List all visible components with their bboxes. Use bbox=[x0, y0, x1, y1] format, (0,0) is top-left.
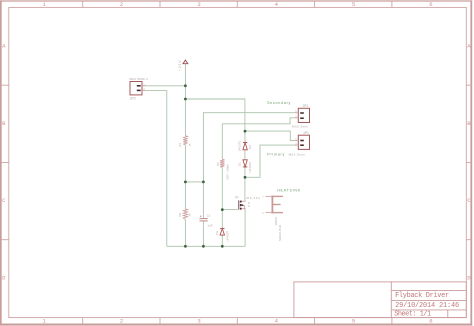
wire JP2 pin1 to +24V rail bbox=[146, 85, 186, 87]
wire primary pin2 to drain bbox=[245, 145, 295, 177]
connector JP1 bbox=[289, 131, 310, 156]
outer frame border top bbox=[0, 0, 472, 2]
svg-text:2: 2 bbox=[120, 317, 123, 324]
svg-text:Secondary: Secondary bbox=[267, 101, 291, 105]
svg-text:M02.5mm: M02.5mm bbox=[289, 152, 306, 156]
svg-text:JP1: JP1 bbox=[303, 131, 309, 135]
wire diode chain D2-D1 gap bbox=[244, 150, 246, 160]
svg-text:SK104-PAD: SK104-PAD bbox=[278, 224, 282, 241]
svg-text:1: 1 bbox=[42, 317, 46, 324]
wire ground bus bottom bbox=[167, 245, 245, 247]
svg-text:R2: R2 bbox=[178, 212, 182, 216]
svg-text:GND2: GND2 bbox=[274, 217, 278, 226]
svg-text:C: C bbox=[2, 197, 6, 204]
wire gate horizontal bbox=[222, 209, 238, 211]
wire below C1 to bus bbox=[202, 222, 204, 247]
svg-text:29/10/2014 21:46: 29/10/2014 21:46 bbox=[395, 302, 459, 310]
svg-text:1k: 1k bbox=[187, 213, 191, 217]
junction bus at D3 bbox=[221, 245, 224, 248]
connector JP3 bbox=[292, 104, 310, 129]
wire MOSFET source to ground bus bbox=[244, 209, 246, 246]
supply +24V symbol bbox=[178, 59, 188, 71]
wire drain line below D1 to MOSFET bbox=[244, 168, 246, 201]
svg-text:A: A bbox=[2, 43, 6, 50]
capacitor C1 bbox=[200, 214, 213, 228]
svg-text:6: 6 bbox=[429, 1, 432, 8]
resistor R2 bbox=[178, 209, 191, 220]
svg-text:Flyback Driver: Flyback Driver bbox=[395, 292, 449, 300]
wire secondary pin2 to R3 bbox=[222, 118, 294, 160]
wire top horizontal +24V to diode chain bbox=[185, 99, 245, 142]
bottom column tick marks bbox=[83, 318, 392, 324]
bottom column labels 1-6 bbox=[42, 317, 432, 324]
wire below R3 to gate node bbox=[221, 167, 223, 228]
junction bus at C1 bbox=[202, 245, 205, 248]
resistor R3 bbox=[216, 159, 230, 180]
svg-text:C1: C1 bbox=[207, 214, 211, 218]
svg-text:1N5375: 1N5375 bbox=[238, 141, 242, 152]
junction at gate node bbox=[221, 208, 224, 211]
wire JP2 pin2 right segment bbox=[146, 89, 167, 91]
svg-text:Q1: Q1 bbox=[235, 195, 239, 199]
svg-text:D3: D3 bbox=[215, 231, 219, 235]
svg-text:D1: D1 bbox=[238, 162, 242, 166]
wire +24V vertical rail bbox=[184, 64, 186, 136]
wire left vertical rail (GND from JP2 pin2) bbox=[166, 90, 168, 246]
junction at divider tap right / C1 bbox=[202, 181, 205, 184]
junction at clamp top / primary pin1 bbox=[244, 130, 247, 133]
svg-text:33R - 1Watt: 33R - 1Watt bbox=[226, 164, 230, 180]
right row tick marks bbox=[466, 85, 472, 240]
wire divider tap to C1 top bbox=[185, 181, 203, 183]
outer frame border left bbox=[0, 0, 2, 325]
outer frame border bottom bbox=[0, 324, 472, 326]
junction bus at R2 bbox=[184, 245, 187, 248]
resistor R1 bbox=[178, 136, 191, 147]
svg-text:2: 2 bbox=[262, 211, 264, 215]
connector JP2 bbox=[130, 77, 149, 100]
svg-text:D: D bbox=[2, 274, 6, 281]
title block box bbox=[294, 282, 466, 318]
svg-text:S: S bbox=[248, 204, 250, 208]
svg-text:+24V: +24V bbox=[178, 59, 182, 71]
svg-text:R1: R1 bbox=[178, 142, 182, 146]
left row labels A-D bbox=[2, 43, 6, 282]
heatsink symbol bbox=[272, 196, 283, 214]
top column tick marks bbox=[83, 1, 392, 7]
svg-text:Sheet: 1/1: Sheet: 1/1 bbox=[394, 311, 431, 319]
junction at top wire split bbox=[184, 98, 187, 101]
svg-text:Primary: Primary bbox=[267, 152, 285, 156]
svg-text:M02.5mm: M02.5mm bbox=[292, 124, 309, 128]
right row labels A-D bbox=[467, 43, 471, 282]
svg-text:JP2: JP2 bbox=[130, 96, 136, 100]
svg-text:IRF 634: IRF 634 bbox=[246, 196, 261, 200]
svg-text:D2: D2 bbox=[248, 145, 252, 149]
left row tick marks bbox=[1, 85, 9, 240]
svg-text:4: 4 bbox=[275, 1, 279, 8]
junction at divider tap left bbox=[184, 181, 187, 184]
svg-text:5: 5 bbox=[352, 1, 355, 8]
wire below D3 to bus bbox=[221, 235, 223, 246]
wire rail between R1 and R2 bbox=[184, 145, 186, 209]
svg-text:R3: R3 bbox=[216, 162, 220, 166]
outer frame border right bbox=[470, 0, 472, 325]
svg-text:UF4007: UF4007 bbox=[225, 230, 229, 241]
svg-text:D: D bbox=[248, 201, 250, 205]
svg-text:1k: 1k bbox=[187, 143, 191, 147]
diode D2 (zener 1N5375) bbox=[238, 141, 253, 152]
svg-text:3: 3 bbox=[197, 317, 200, 324]
svg-text:B: B bbox=[2, 120, 6, 127]
junction at +24V / JP2 pin1 bbox=[184, 84, 187, 87]
wire rail below R2 to bus bbox=[184, 220, 186, 247]
wire primary pin1 to clamp top bbox=[245, 131, 295, 140]
svg-text:5: 5 bbox=[352, 317, 355, 324]
svg-text:2: 2 bbox=[120, 1, 123, 8]
svg-text:1: 1 bbox=[262, 195, 264, 199]
svg-text:1: 1 bbox=[42, 1, 46, 8]
svg-text:1uF: 1uF bbox=[207, 224, 212, 228]
svg-text:HEATSINK: HEATSINK bbox=[277, 188, 301, 192]
svg-text:4: 4 bbox=[275, 317, 279, 324]
transistor Q1 MOSFET bbox=[235, 195, 260, 209]
svg-text:UF4007: UF4007 bbox=[248, 161, 252, 172]
svg-text:3: 3 bbox=[197, 1, 200, 8]
wire secondary pin1 horizontal bbox=[203, 113, 294, 218]
diode D1 (UF4007) bbox=[238, 160, 253, 173]
svg-text:JP3: JP3 bbox=[302, 104, 308, 108]
junction at drain / primary pin2 bbox=[244, 176, 247, 179]
svg-text:M02.5MM-V: M02.5MM-V bbox=[130, 77, 149, 81]
top column labels 1-6 bbox=[42, 1, 432, 8]
diode D3 (UF4007) bbox=[215, 229, 229, 242]
